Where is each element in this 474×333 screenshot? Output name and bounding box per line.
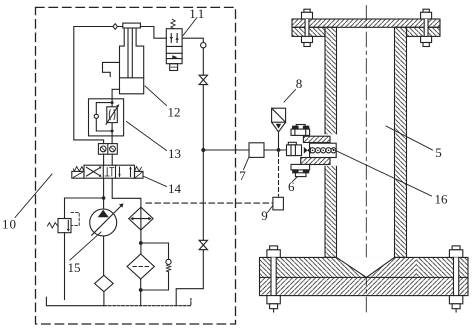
top flange wedge right bbox=[407, 27, 441, 36]
wires block to valve 14 bbox=[104, 154, 113, 165]
top flange plate bbox=[292, 19, 440, 27]
centerline of column bbox=[365, 6, 367, 313]
leader line 15 bbox=[70, 232, 101, 260]
riser pipe upper segment bbox=[202, 48, 204, 75]
injector inlet fitting bbox=[287, 142, 302, 155]
svg-text:16: 16 bbox=[435, 192, 449, 207]
leader line 13 bbox=[127, 122, 167, 151]
label 5 bbox=[435, 145, 442, 160]
junction node riser/outlet bbox=[201, 148, 205, 152]
wire T port to return filter bbox=[112, 178, 141, 207]
junction node bypass bottom bbox=[139, 288, 143, 292]
label 12 bbox=[168, 105, 181, 120]
injector nozzle tip 6 bbox=[304, 147, 311, 154]
wire cylinder cap to valve 11 bbox=[140, 27, 166, 39]
leader line 12 bbox=[145, 86, 167, 106]
shutoff valve lower bbox=[199, 240, 207, 249]
leader line 14 bbox=[144, 177, 167, 187]
label 14 bbox=[168, 181, 182, 196]
base upper bar with funnel notch bbox=[260, 257, 469, 277]
base lower bar bbox=[260, 277, 469, 295]
label 16 bbox=[435, 192, 449, 207]
label 11 bbox=[189, 6, 207, 21]
shutoff valve upper bbox=[199, 75, 207, 84]
base bolt right bbox=[449, 246, 462, 312]
leader line 5 bbox=[386, 126, 433, 150]
junction node bypass top bbox=[139, 241, 143, 245]
riser pipe to tank bbox=[176, 250, 203, 306]
injector top flange bbox=[291, 125, 310, 136]
cylinder 12 bbox=[103, 23, 144, 94]
label 15 bbox=[68, 260, 81, 275]
shuttle diamond on return line bbox=[129, 207, 153, 230]
sensor block 9 bbox=[273, 197, 284, 210]
hopper 8 bbox=[272, 108, 286, 148]
supply line to specimen bbox=[203, 149, 286, 151]
svg-text:15: 15 bbox=[68, 260, 81, 275]
bypass check branch bbox=[141, 243, 171, 290]
leader line 7 bbox=[244, 158, 249, 170]
dashed pilot line to pump bbox=[146, 202, 272, 204]
injector 16 top hatched band bbox=[303, 136, 330, 142]
junction node P line bbox=[102, 196, 106, 200]
svg-text:9: 9 bbox=[261, 208, 268, 223]
riser pipe middle segment bbox=[202, 85, 204, 241]
svg-text:8: 8 bbox=[296, 76, 303, 91]
label 10 bbox=[2, 217, 17, 232]
wire P port to pump bbox=[103, 178, 105, 209]
svg-text:10: 10 bbox=[2, 217, 17, 232]
oil tank bbox=[46, 297, 191, 306]
wire diamond to return filter bbox=[140, 230, 142, 254]
svg-text:6: 6 bbox=[288, 179, 295, 194]
svg-text:7: 7 bbox=[239, 168, 246, 183]
pump 15 bbox=[90, 203, 124, 236]
wire valve 11 to right riser bbox=[182, 38, 203, 42]
leader line 6 bbox=[293, 177, 298, 182]
top flange wedge left bbox=[292, 27, 325, 36]
base bolt left bbox=[267, 246, 280, 312]
column right wall bbox=[395, 27, 407, 257]
check valve diamond on top line bbox=[113, 24, 118, 30]
wire from cylinder cap to left frame line bbox=[74, 27, 123, 144]
svg-text:11: 11 bbox=[189, 6, 207, 21]
top flange bolt left bbox=[302, 9, 313, 46]
leader line 11 bbox=[183, 18, 197, 36]
junction node at funnel bbox=[277, 148, 281, 152]
double check valve block bbox=[98, 144, 117, 155]
label 6 bbox=[288, 179, 295, 194]
injector 16 bottom hatched band bbox=[301, 158, 330, 165]
return filter bbox=[127, 254, 154, 306]
directional valve 14 bbox=[72, 165, 143, 178]
flow control box 13 bbox=[89, 89, 124, 143]
svg-text:13: 13 bbox=[168, 146, 181, 161]
leader line 8 bbox=[284, 90, 296, 103]
branch to relief valve bbox=[65, 198, 104, 219]
valve 11 bbox=[166, 19, 182, 70]
accumulator block 7 bbox=[249, 143, 264, 158]
svg-text:14: 14 bbox=[168, 181, 182, 196]
dashed enclosure box 10 bbox=[36, 7, 236, 324]
label 13 bbox=[168, 146, 181, 161]
dashed signal line 9 to junction bbox=[278, 153, 280, 197]
leader line 16 bbox=[333, 149, 432, 196]
injector 16 coil chamber bbox=[310, 143, 337, 157]
svg-text:12: 12 bbox=[168, 105, 181, 120]
leader line 9 bbox=[268, 206, 273, 213]
suction line pump to strainer bbox=[103, 236, 105, 275]
column left wall 5 bbox=[325, 27, 337, 257]
label 7 bbox=[239, 168, 246, 183]
svg-text:5: 5 bbox=[435, 145, 442, 160]
suction strainer bbox=[95, 275, 114, 305]
gauge circle on riser bbox=[201, 43, 206, 48]
wall cutout for injector bbox=[324, 134, 337, 166]
top flange bolt right bbox=[421, 9, 432, 46]
relief valve bbox=[47, 213, 79, 300]
label 8 bbox=[296, 76, 303, 91]
leader line 10 bbox=[15, 174, 52, 218]
injector bottom flange bbox=[291, 164, 310, 176]
label 9 bbox=[261, 208, 268, 223]
